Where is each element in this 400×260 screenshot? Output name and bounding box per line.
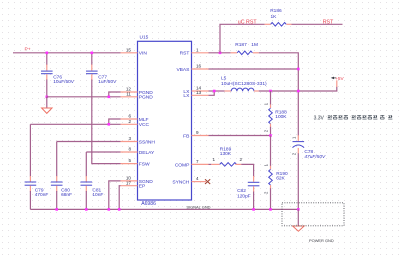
power +5V: [331, 76, 345, 81]
svg-text:R187: R187: [235, 42, 247, 48]
svg-text:A6986: A6986: [141, 201, 156, 207]
node uC RST label: [238, 19, 258, 25]
svg-text:15: 15: [126, 47, 132, 52]
svg-text:3.3V: 3.3V: [314, 115, 325, 121]
wire signal gnd bus: [30, 208, 298, 210]
wire EP net: [119, 186, 120, 210]
wire C80 vertical: [56, 142, 58, 182]
svg-text:120pF: 120pF: [237, 193, 251, 199]
node POWER GND label: [309, 238, 334, 243]
wire RST pin to R187: [209, 52, 231, 54]
node junction bus C81: [85, 208, 88, 211]
wire SGND net: [109, 181, 121, 210]
wire R187 to +5V rail corner: [259, 53, 299, 141]
wire C77 top lead: [91, 53, 93, 71]
resistor R188: [263, 91, 287, 136]
ground signal gnd triangle: [42, 108, 52, 113]
wire FB net: [209, 135, 271, 137]
wire L5 to +5V corner: [259, 80, 337, 91]
pin 10 SGND: [121, 176, 154, 185]
svg-text:7: 7: [196, 159, 199, 164]
wire C82 bottom lead: [253, 186, 255, 209]
wire COMP to R189: [209, 163, 212, 165]
svg-text:uC RST: uC RST: [238, 19, 258, 25]
svg-text:SYNCH: SYNCH: [172, 180, 189, 186]
svg-text:470nF: 470nF: [35, 192, 49, 198]
node RST label: [323, 19, 334, 25]
wire R186 to RST net: [292, 23, 343, 25]
node junction bus power gnd: [297, 208, 300, 211]
resistor R189: [211, 146, 242, 166]
svg-text:6: 6: [128, 114, 131, 119]
svg-text:13: 13: [196, 90, 202, 95]
svg-text:PGND: PGND: [139, 95, 153, 101]
wire P+ rail to VIN: [13, 52, 121, 54]
wire uC RST branch up: [220, 24, 265, 53]
svg-text:LX: LX: [183, 93, 190, 99]
svg-text:EP: EP: [139, 184, 145, 190]
wire gnd lead: [46, 97, 48, 108]
svg-text:1: 1: [196, 47, 199, 52]
pin 17 EP: [121, 180, 146, 189]
wire DELAY net: [86, 151, 120, 153]
pin 11 PGND: [121, 92, 154, 101]
wire C81 bottom lead: [85, 186, 87, 210]
svg-text:POWER GND: POWER GND: [309, 238, 334, 243]
svg-text:10nF: 10nF: [92, 192, 103, 198]
svg-text:FB: FB: [183, 133, 189, 139]
wire VCC net: [30, 119, 120, 124]
pin 2 VCC: [121, 119, 150, 128]
wire C79 bottom lead: [29, 186, 31, 210]
svg-text:DELAY: DELAY: [139, 150, 155, 156]
resistor R186: [265, 8, 292, 26]
svg-text:47uF/50V: 47uF/50V: [304, 154, 326, 160]
wire R189 to C82: [241, 164, 253, 181]
ground power gnd triangle: [293, 226, 305, 231]
pin 14 LX: [183, 86, 208, 95]
svg-text:C82: C82: [237, 188, 246, 194]
node P+: [25, 46, 31, 52]
node SIGNAL GND label: [186, 204, 210, 209]
svg-text:17: 17: [126, 180, 132, 185]
resistor R190: [263, 136, 288, 210]
wire LX pins join: [209, 91, 225, 95]
svg-text:10uF/50V: 10uF/50V: [53, 79, 75, 85]
svg-text:2: 2: [240, 157, 243, 162]
svg-text:VBAS: VBAS: [176, 67, 190, 73]
wire C77 bottom lead down to FSW: [92, 74, 121, 163]
wire C76 bottom lead: [46, 74, 48, 97]
note korean annotation: [314, 115, 393, 121]
node junction uC RST branch: [219, 52, 222, 55]
svg-text:11: 11: [126, 92, 131, 97]
node junction VCC-MLF branch: [108, 123, 111, 126]
wire C79 vertical: [29, 124, 31, 181]
pin 9 FB: [183, 130, 208, 139]
svg-text:9: 9: [196, 130, 199, 135]
svg-text:P+: P+: [25, 46, 31, 52]
svg-text:1: 1: [213, 157, 216, 162]
node junction LX-R188: [269, 90, 272, 93]
node junction bus C80: [55, 208, 58, 211]
node junction LX pins: [213, 90, 216, 93]
svg-text:1K: 1K: [271, 14, 278, 20]
node junction C76 top: [46, 52, 49, 55]
capacitor C80: [51, 182, 72, 198]
node junction VBAS: [297, 68, 300, 71]
svg-text:SS/INH: SS/INH: [139, 139, 156, 145]
wire C78 bottom lead: [297, 148, 299, 210]
pin 13 LX: [183, 90, 208, 99]
capacitor C82: [237, 182, 259, 199]
svg-text:RST: RST: [180, 51, 190, 57]
pin 6 MLF: [121, 114, 149, 123]
pin 7 COMP: [175, 159, 209, 168]
svg-text:R186: R186: [270, 8, 282, 14]
svg-text:1uF/50V: 1uF/50V: [98, 79, 117, 85]
node junction rail-LX: [297, 90, 300, 93]
svg-text:8: 8: [128, 147, 131, 152]
node junction PGND branch: [108, 96, 111, 99]
inductor L5: [221, 76, 267, 92]
capacitor C78: [292, 136, 327, 160]
svg-text:100K: 100K: [275, 114, 287, 120]
svg-text:L5: L5: [221, 76, 227, 82]
capacitor C81: [81, 182, 104, 198]
node junction C77 top: [91, 52, 94, 55]
node junction C76-PGND: [46, 96, 49, 99]
wire power gnd lead: [297, 209, 299, 226]
wire SS/INH net: [57, 141, 121, 143]
svg-text:68nF: 68nF: [61, 192, 72, 198]
svg-text:MLF: MLF: [139, 117, 149, 123]
svg-text:4: 4: [196, 176, 199, 181]
no-connect X on SYNCH: [205, 179, 210, 184]
svg-text:3: 3: [128, 136, 131, 141]
resistor R187: [231, 42, 259, 55]
svg-text:U15: U15: [140, 35, 149, 41]
pin 1 RST: [180, 47, 209, 56]
svg-text:RST: RST: [323, 19, 334, 25]
pin 3 SS/INH: [121, 136, 156, 145]
svg-text:VCC: VCC: [139, 122, 150, 128]
wire C81 vertical: [85, 152, 87, 182]
svg-text:VIN: VIN: [139, 51, 148, 57]
svg-text:FSW: FSW: [139, 162, 150, 168]
wire PGND net: [47, 92, 121, 97]
pin 8 DELAY: [121, 147, 156, 156]
svg-text:COMP: COMP: [175, 162, 189, 168]
pin 16 VBAS: [176, 64, 208, 73]
svg-text:2: 2: [128, 119, 131, 124]
wire C80 bottom lead: [56, 186, 58, 210]
svg-text:+5V: +5V: [335, 76, 344, 81]
pin 4 SYNCH: [172, 176, 206, 185]
pin 15 VIN: [121, 47, 148, 56]
op-amp U15 regulator A6986: [138, 35, 192, 207]
node junction bus C82: [252, 208, 255, 211]
power gnd dashed box: [282, 203, 344, 226]
capacitor C79: [25, 182, 49, 198]
svg-text:130K: 130K: [220, 151, 232, 157]
pin 5 FSW: [121, 158, 150, 167]
wire C76 top lead: [46, 53, 48, 71]
svg-text:62K: 62K: [276, 176, 285, 182]
svg-text:16: 16: [196, 64, 202, 69]
pin 12 PGND: [121, 87, 154, 96]
svg-text:10uH(SC1280S-331): 10uH(SC1280S-331): [221, 81, 267, 87]
node junction bus R190: [269, 208, 272, 211]
node junction FB-R188-R190: [269, 134, 272, 137]
svg-text:1M: 1M: [251, 42, 258, 48]
node junction bus EP: [118, 208, 121, 211]
capacitor C76: [41, 71, 75, 85]
svg-text:5: 5: [128, 158, 131, 163]
wire VBAS to rail: [209, 68, 299, 70]
node junction bus SGND: [108, 208, 111, 211]
capacitor C77: [86, 71, 117, 85]
svg-text:SIGNAL GND: SIGNAL GND: [186, 204, 210, 209]
